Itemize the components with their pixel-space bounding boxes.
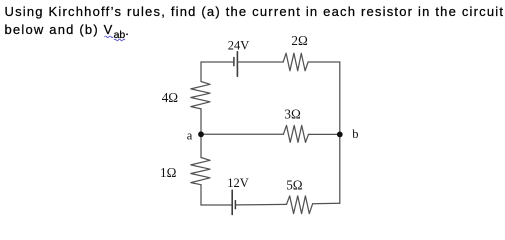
wire left vertical bottom segment [200,185,202,205]
spellcheck squiggle under ab [114,39,125,41]
battery B2 12V short plate (negative) [234,201,236,209]
spellcheck squiggle under V [105,36,114,38]
wire bottom from 5-ohm to right corner [313,202,340,205]
resistor R5 5-ohm (bottom horizontal zigzag) [287,196,313,214]
resistor R3 2-ohm (top horizontal zigzag) [283,53,308,71]
wire bottom from battery to 5-ohm resistor [235,203,286,206]
wire top from left corner to 24V battery [201,61,234,63]
wire left vertical top segment [200,62,202,82]
battery B2 12V tall plate (positive) [231,190,233,214]
svg-text:12V: 12V [227,176,249,190]
svg-text:24V: 24V [228,38,250,52]
svg-text:1Ω: 1Ω [160,165,177,180]
node a (junction dot) [198,131,204,137]
wire bottom from left corner to 12V battery [201,204,232,206]
svg-text:5Ω: 5Ω [286,178,303,193]
svg-text:3Ω: 3Ω [284,107,301,122]
wire middle from 3-ohm to node b [309,133,340,135]
resistor R1 4-ohm (left upper, vertical zigzag) [191,82,210,109]
wire left vertical middle segment (through node a) [200,109,202,158]
battery B1 24V tall plate (positive) [236,52,238,76]
svg-text:4Ω: 4Ω [162,90,179,105]
resistor R4 3-ohm (middle horizontal zigzag) [283,125,308,142]
wire right vertical [339,62,341,203]
wire top from battery to 2-ohm resistor [237,61,283,63]
wire top from 2-ohm to right corner [308,61,340,63]
node b (junction dot) [337,132,343,138]
svg-text:2Ω: 2Ω [291,33,308,48]
battery B1 24V short plate (negative) [233,58,235,66]
svg-text:a: a [187,129,193,143]
svg-text:b: b [352,127,358,141]
resistor R2 1-ohm (left lower, vertical zigzag) [191,158,210,185]
wire middle from node a to 3-ohm resistor [201,133,283,135]
